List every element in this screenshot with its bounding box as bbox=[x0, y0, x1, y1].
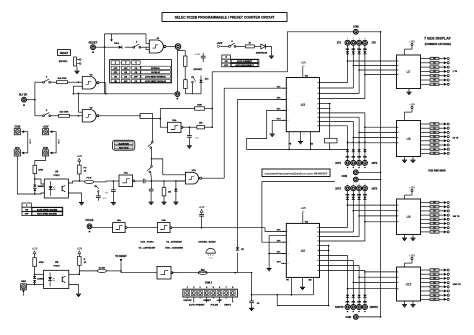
svg-text:NEG'V: NEG'V bbox=[224, 305, 231, 307]
link arrows left pair bbox=[21, 130, 30, 154]
svg-text:R5: R5 bbox=[433, 223, 435, 225]
wire opto emitter to ground bbox=[68, 193, 81, 202]
svg-text:COM: COM bbox=[353, 26, 358, 28]
svg-text:LINK: LINK bbox=[57, 139, 59, 144]
svg-text:+12V: +12V bbox=[217, 42, 223, 45]
power +12V U5 bbox=[300, 62, 306, 68]
ground bbox=[162, 202, 167, 204]
svg-text:1: 1 bbox=[398, 216, 399, 218]
node B terminal bbox=[175, 92, 180, 100]
diode D5 bbox=[174, 181, 177, 202]
junction bbox=[78, 115, 80, 117]
U6 bottom pins bbox=[286, 277, 313, 295]
capacitor C8 bbox=[249, 273, 260, 308]
junction bbox=[251, 272, 253, 274]
capacitor C5 series bbox=[134, 179, 152, 184]
table mode-select bbox=[110, 60, 172, 83]
wire U3a to U3b bbox=[127, 227, 157, 229]
opto U4 bbox=[44, 169, 68, 198]
U5 bottom pins bbox=[288, 132, 313, 151]
svg-text:PUR: PUR bbox=[43, 147, 48, 150]
svg-text:+1.48V: +1.48V bbox=[194, 54, 201, 56]
svg-text:10K: 10K bbox=[199, 122, 203, 124]
terminal COM input bbox=[14, 125, 20, 134]
junction bbox=[73, 93, 75, 95]
legend diodes bbox=[198, 240, 216, 259]
thumbwheel group 1TS bbox=[337, 38, 377, 54]
svg-text:1N4007: 1N4007 bbox=[37, 185, 44, 188]
wire U6 Vdd bbox=[303, 212, 308, 223]
svg-text:U2b: U2b bbox=[172, 120, 177, 122]
wire reset row bbox=[172, 272, 252, 274]
wire U1b output bbox=[202, 88, 224, 178]
svg-text:1: 1 bbox=[317, 98, 318, 100]
grounds U9 bbox=[402, 235, 416, 241]
ground pushbutton bbox=[75, 71, 80, 73]
table speed-select bbox=[22, 203, 63, 216]
resistor R17 oval bbox=[198, 269, 207, 274]
svg-text:R0: R0 bbox=[433, 270, 435, 272]
svg-text:1000TS: 1000TS bbox=[370, 306, 379, 309]
svg-text:R0: R0 bbox=[433, 202, 435, 204]
svg-text:1N4007: 1N4007 bbox=[37, 277, 44, 280]
svg-text:R5: R5 bbox=[433, 80, 435, 82]
svg-text:PULSE: PULSE bbox=[211, 305, 219, 307]
junction bbox=[78, 81, 80, 83]
wire U3 upper input bbox=[78, 93, 83, 113]
led arrows U9 bbox=[444, 201, 449, 233]
switch S3 bbox=[35, 76, 51, 83]
svg-text:U1/2 - PC913: U1/2 - PC913 bbox=[140, 241, 154, 243]
op-amp U8 decoder bbox=[397, 121, 421, 157]
svg-text:1: 1 bbox=[317, 82, 318, 84]
svg-text:U5/6 - CD4029BE: U5/6 - CD4029BE bbox=[165, 247, 183, 250]
power +12V U7 bbox=[409, 40, 415, 45]
wire osc loop right bbox=[211, 109, 213, 128]
ground bbox=[173, 202, 178, 204]
ground bbox=[76, 294, 81, 296]
junction bbox=[104, 46, 106, 48]
wire U5 pin CPd gnd bbox=[272, 120, 286, 134]
svg-text:1: 1 bbox=[317, 265, 318, 267]
svg-text:1TS: 1TS bbox=[337, 42, 342, 45]
svg-text:1 2 3: 1 2 3 bbox=[209, 258, 213, 260]
terminal 4PS input bbox=[14, 147, 20, 156]
svg-text:U9: U9 bbox=[406, 215, 410, 219]
svg-text:COM: COM bbox=[345, 317, 350, 319]
svg-text:3: 3 bbox=[288, 110, 289, 112]
svg-text:1: 1 bbox=[398, 222, 399, 224]
wire to opto anode bbox=[35, 179, 45, 184]
U5 right pin numbers bbox=[317, 82, 319, 128]
switch S7 bbox=[147, 160, 152, 181]
svg-text:24R/1N4148: 24R/1N4148 bbox=[256, 51, 268, 54]
grounds U8 bbox=[402, 157, 416, 163]
svg-text:7 SEG DISPLAY: 7 SEG DISPLAY bbox=[424, 36, 451, 40]
wire opto collector out bbox=[69, 271, 98, 275]
preset pot R4 bbox=[184, 80, 201, 94]
svg-text:100 TS: 100 TS bbox=[453, 216, 461, 218]
svg-text:1: 1 bbox=[317, 121, 318, 123]
switch S5 filter bbox=[95, 185, 99, 196]
junction bbox=[234, 272, 236, 274]
svg-text:U10: U10 bbox=[406, 282, 412, 286]
terminal SEN bbox=[21, 281, 44, 296]
svg-text:COM: COM bbox=[14, 125, 20, 128]
power +12V U6 bbox=[300, 207, 306, 213]
diodes D3 D4 clamp bbox=[33, 184, 44, 194]
U9 left pins bbox=[397, 205, 399, 224]
wire to U5b bbox=[121, 272, 157, 274]
svg-text:R3: R3 bbox=[433, 71, 435, 73]
U7 left pins bbox=[397, 61, 399, 77]
svg-text:+12V: +12V bbox=[43, 125, 49, 128]
svg-text:1: 1 bbox=[288, 88, 289, 90]
wires upper-middle columns to U5 lower pins bbox=[320, 113, 397, 160]
svg-text:1: 1 bbox=[398, 137, 399, 139]
ground bbox=[270, 134, 275, 136]
gate U1b bbox=[185, 172, 201, 184]
U6 right pin numbers bbox=[317, 227, 319, 272]
thumbwheel group 10TS lower bbox=[335, 184, 377, 199]
svg-text:R2: R2 bbox=[433, 278, 435, 280]
diode D2 bbox=[256, 44, 268, 55]
svg-text:1: 1 bbox=[398, 277, 399, 279]
svg-text:1: 1 bbox=[398, 132, 399, 134]
ground bbox=[149, 202, 154, 204]
wires bottom columns to U6 lower pins bbox=[320, 256, 397, 305]
junction bbox=[139, 115, 141, 117]
power +12V pullup bbox=[76, 155, 82, 161]
junction bbox=[34, 99, 36, 101]
svg-text:1: 1 bbox=[398, 70, 399, 72]
junction bbox=[34, 274, 36, 276]
resistors R30 network bbox=[421, 123, 444, 155]
resistors R20 network bbox=[421, 57, 444, 86]
svg-text:1: 1 bbox=[317, 270, 318, 272]
svg-text:R7: R7 bbox=[433, 232, 435, 234]
ground bbox=[269, 56, 274, 58]
wire U9 Vdd bracket bbox=[405, 192, 413, 200]
svg-text:1: 1 bbox=[317, 88, 318, 90]
wire U3b output bbox=[172, 228, 286, 232]
wire vertical reset bus bbox=[104, 34, 146, 93]
svg-text:AUTO DISCONNECT: AUTO DISCONNECT bbox=[235, 64, 254, 67]
resistor R10 bbox=[33, 166, 44, 185]
capacitor C1 bbox=[194, 53, 206, 62]
svg-text:1: 1 bbox=[398, 282, 399, 284]
svg-text:FAST RUN: FAST RUN bbox=[119, 146, 129, 149]
capacitor C3 bbox=[96, 196, 107, 201]
svg-text:R6: R6 bbox=[433, 295, 435, 297]
wire U1 input bbox=[146, 34, 149, 50]
gate U5b schmitt bbox=[157, 266, 173, 279]
wire bus CPa bbox=[224, 87, 286, 89]
svg-text:1: 1 bbox=[317, 245, 318, 247]
capacitor C2 bbox=[187, 127, 199, 145]
wires U6 carry bbox=[320, 245, 330, 306]
wire opto anode bbox=[35, 273, 44, 275]
wire U5 pin CPc loop bbox=[247, 110, 348, 150]
U5 left pins bbox=[277, 86, 289, 122]
junction bbox=[211, 126, 213, 128]
led arrows U8 bbox=[444, 123, 449, 155]
svg-text:10TS: 10TS bbox=[335, 187, 341, 190]
wire node A down bbox=[177, 49, 179, 91]
svg-text:FAST SPEED 500s/MIN: FAST SPEED 500s/MIN bbox=[37, 213, 57, 216]
terminal COM mid1 bbox=[353, 170, 381, 175]
svg-text:1: 1 bbox=[398, 272, 399, 274]
svg-text:1: 1 bbox=[317, 241, 318, 243]
terminal RESET bbox=[89, 41, 98, 54]
pushbutton SW-RESET front bbox=[74, 57, 82, 71]
svg-text:R4: R4 bbox=[433, 218, 435, 221]
svg-text:1: 1 bbox=[317, 227, 318, 229]
svg-text:LINK: LINK bbox=[29, 139, 31, 144]
svg-text:PULSE: PULSE bbox=[86, 219, 94, 222]
gate U6a schmitt bbox=[119, 175, 135, 187]
svg-text:1: 1 bbox=[398, 61, 399, 63]
resistor R16 oval bbox=[97, 267, 121, 272]
svg-text:U4: U4 bbox=[55, 169, 59, 173]
junction bbox=[189, 126, 191, 128]
capacitor C6 bbox=[149, 181, 154, 202]
terminal PUR input bbox=[43, 147, 49, 156]
svg-text:RLY DR: RLY DR bbox=[19, 95, 28, 97]
svg-text:1: 1 bbox=[398, 288, 399, 290]
ground bbox=[267, 269, 272, 271]
svg-text:2: 2 bbox=[288, 242, 289, 244]
title box bbox=[162, 13, 287, 22]
svg-text:U3 - ADF4510ET: U3 - ADF4510ET bbox=[139, 247, 156, 250]
svg-text:10TS: 10TS bbox=[372, 187, 378, 190]
svg-text:R0: R0 bbox=[433, 124, 435, 126]
wire U3 output row bbox=[99, 115, 140, 117]
svg-text:1: 1 bbox=[317, 117, 318, 119]
wire U8 Vdd bracket bbox=[405, 109, 413, 121]
op-amp U6 counter CD4029 bbox=[286, 223, 319, 277]
svg-text:1: 1 bbox=[317, 113, 318, 115]
svg-text:AUTO PRESET: AUTO PRESET bbox=[189, 304, 205, 307]
svg-text:470R: 470R bbox=[38, 169, 43, 172]
svg-text:COM: COM bbox=[342, 176, 347, 178]
wire bus CPb bbox=[238, 100, 287, 273]
svg-text:R7: R7 bbox=[433, 299, 435, 301]
svg-text:(COMMON CATHODE): (COMMON CATHODE) bbox=[425, 43, 451, 46]
svg-text:R1: R1 bbox=[433, 206, 435, 208]
svg-text:10TS: 10TS bbox=[335, 162, 341, 165]
svg-text:1000TS: 1000TS bbox=[335, 306, 344, 309]
svg-text:10TS: 10TS bbox=[372, 162, 378, 165]
arrow from CN-8 bbox=[110, 34, 120, 45]
resistor R14 bbox=[33, 254, 44, 274]
power +12V U10 bbox=[409, 254, 415, 259]
zener Z10 bbox=[199, 76, 209, 94]
svg-text:SLOW RUN: SLOW RUN bbox=[118, 143, 129, 145]
resistor R13 bbox=[162, 181, 171, 202]
svg-text:1: 1 bbox=[317, 255, 318, 257]
svg-text:+12V: +12V bbox=[76, 247, 82, 250]
svg-text:10 TS: 10 TS bbox=[453, 137, 459, 139]
svg-text:AUTO RESET ON DELAY: AUTO RESET ON DELAY bbox=[145, 80, 167, 83]
svg-text:R1: R1 bbox=[433, 128, 435, 130]
svg-text:R4: R4 bbox=[433, 286, 435, 289]
svg-text:U9: U9 bbox=[55, 260, 59, 264]
svg-text:R2: R2 bbox=[433, 132, 435, 134]
resistors R40 network bbox=[421, 201, 444, 233]
svg-text:1: 1 bbox=[317, 126, 318, 128]
svg-text:1: 1 bbox=[317, 236, 318, 238]
wires CN1 label stubs bbox=[187, 297, 233, 303]
wire U6 CPb loop bbox=[262, 182, 335, 243]
svg-text:CN# 1: CN# 1 bbox=[205, 281, 213, 285]
svg-text:+12V: +12V bbox=[409, 254, 415, 257]
svg-text:1: 1 bbox=[398, 210, 399, 212]
svg-text:saravanthiprasanna@yahoo.com: saravanthiprasanna@yahoo.com 98490307 bbox=[265, 171, 328, 175]
svg-text:1TS: 1TS bbox=[372, 42, 377, 45]
grounds U7 bbox=[407, 89, 412, 95]
op-amp U5 counter CD4029 bbox=[286, 78, 319, 132]
wire to ground bbox=[266, 46, 272, 55]
terminal COM bottom bbox=[345, 315, 381, 320]
resistor R7 bbox=[51, 111, 83, 118]
node A terminal bbox=[175, 44, 181, 50]
svg-text:1: 1 bbox=[317, 232, 318, 234]
svg-text:R6: R6 bbox=[433, 227, 435, 229]
ground bbox=[111, 203, 116, 205]
junction bbox=[113, 180, 115, 182]
svg-text:+12V: +12V bbox=[199, 206, 205, 209]
svg-text:(FRONT): (FRONT) bbox=[194, 69, 203, 71]
svg-text:R3: R3 bbox=[433, 282, 435, 284]
wire U2 output bbox=[99, 83, 106, 94]
svg-text:U1b: U1b bbox=[192, 170, 197, 172]
svg-text:+12V: +12V bbox=[76, 155, 82, 158]
svg-text:TO RESET: TO RESET bbox=[115, 256, 127, 258]
svg-text:1: 1 bbox=[317, 260, 318, 262]
led arrows U7 bbox=[444, 57, 449, 86]
gate U3a schmitt bbox=[113, 223, 127, 233]
svg-text:(1): (1) bbox=[302, 66, 305, 68]
resistor R11 bbox=[78, 161, 87, 181]
wire U5 Vdd bbox=[303, 67, 308, 78]
junction bbox=[201, 227, 203, 229]
power +12V top rail bbox=[217, 42, 223, 48]
svg-text:CN-8: CN-8 bbox=[114, 43, 120, 45]
svg-text:R3: R3 bbox=[433, 215, 435, 217]
resistor R9 bbox=[160, 104, 213, 119]
ground bbox=[79, 203, 84, 205]
svg-text:+12V: +12V bbox=[409, 103, 415, 106]
gate U2b schmitt bbox=[168, 122, 183, 132]
label 7 SEG DISPLAY bbox=[424, 36, 451, 46]
switch S1 bbox=[133, 44, 141, 48]
resistors R50 network bbox=[421, 269, 444, 301]
svg-text:1: 1 bbox=[317, 108, 318, 110]
label SLOW FAST box bbox=[113, 140, 135, 150]
svg-text:R6: R6 bbox=[433, 84, 435, 86]
svg-text:SELEC XC22B PROGRAMMABLE / P: SELEC XC22B PROGRAMMABLE / PRESET COUNTE… bbox=[175, 16, 275, 20]
wire to U1b top input bbox=[152, 159, 186, 175]
svg-text:R4: R4 bbox=[433, 74, 435, 77]
svg-text:1: 1 bbox=[317, 250, 318, 252]
svg-text:R5: R5 bbox=[433, 145, 435, 147]
wires U5 carry bbox=[320, 103, 331, 139]
svg-text:R1: R1 bbox=[433, 63, 435, 65]
terminal +12V input bbox=[43, 125, 49, 134]
resistor R12 oval bbox=[79, 177, 113, 183]
gate U2 bbox=[82, 77, 99, 90]
svg-text:U5: U5 bbox=[301, 103, 306, 107]
label RESET (FRONT) bbox=[58, 50, 71, 64]
wire +12V rail bbox=[221, 45, 261, 47]
svg-text:PC817: PC817 bbox=[54, 266, 61, 268]
opto U9 bbox=[44, 260, 69, 289]
resistor R3 bbox=[178, 51, 187, 80]
resistor R15 bbox=[78, 254, 87, 274]
wires 1TS columns to U5 bbox=[320, 45, 397, 98]
svg-text:1: 1 bbox=[317, 93, 318, 95]
wire U6 bottom bbox=[251, 294, 330, 306]
thumbwheel group 1000TS bbox=[335, 295, 378, 313]
wire pulse node bbox=[151, 180, 186, 182]
svg-text:510 470R: 510 470R bbox=[60, 111, 69, 114]
wire U10 Vdd bracket bbox=[405, 260, 413, 268]
svg-text:1: 1 bbox=[398, 65, 399, 67]
label TO RESET bbox=[115, 256, 127, 273]
svg-text:4PS: 4PS bbox=[15, 147, 20, 150]
led arrows U10 bbox=[444, 269, 449, 301]
svg-text:R6: R6 bbox=[433, 149, 435, 151]
svg-text:INTERVAL: INTERVAL bbox=[151, 67, 161, 70]
svg-text:100K: 100K bbox=[197, 104, 202, 106]
svg-text:U4 - ADF4510E: U4 - ADF4510E bbox=[166, 240, 182, 243]
svg-text:1: 1 bbox=[398, 74, 399, 76]
resistor R19 bbox=[325, 138, 337, 150]
U6 left pins bbox=[277, 230, 289, 266]
junction bbox=[211, 108, 213, 110]
svg-text:+12V: +12V bbox=[217, 300, 223, 302]
wire to oscillator bbox=[140, 116, 168, 127]
grounds U10 bbox=[402, 301, 416, 307]
wire U7 Vdd bracket bbox=[405, 46, 413, 56]
table auto-connect bbox=[222, 55, 259, 67]
resistor R6 bbox=[51, 77, 83, 84]
power +12V bbox=[76, 247, 82, 253]
svg-text:SLOW SPEED 200s/MIN: SLOW SPEED 200s/MIN bbox=[37, 209, 58, 211]
gate U3 bbox=[82, 110, 99, 123]
svg-text:U7: U7 bbox=[406, 70, 410, 74]
U8 left pins bbox=[397, 127, 399, 145]
thumbwheel group 10TS upper bbox=[335, 149, 377, 168]
op-amp U10 decoder bbox=[397, 267, 421, 301]
junction bbox=[34, 178, 36, 180]
svg-text:R0: R0 bbox=[433, 58, 435, 60]
wire to speed switch bbox=[140, 113, 152, 141]
terminal COM top bbox=[353, 26, 381, 34]
svg-text:R4: R4 bbox=[433, 140, 435, 143]
svg-text:4: 4 bbox=[288, 263, 289, 265]
junction bbox=[79, 180, 81, 182]
switch S6 speed bbox=[148, 141, 153, 159]
diodes D6 D7 bbox=[33, 275, 44, 285]
svg-text:8: 8 bbox=[304, 134, 305, 136]
wire COM bus vertical bbox=[380, 32, 382, 317]
ground U6 Vss bbox=[300, 287, 305, 289]
resistor R5 bbox=[245, 43, 254, 48]
wire latch feedback bbox=[73, 86, 174, 94]
labels CN1 bbox=[183, 300, 233, 306]
